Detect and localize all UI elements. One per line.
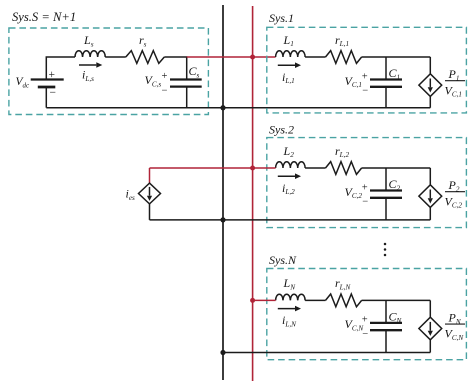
capacitor C2 plates	[370, 189, 402, 191]
subsystem box Sys.1 (dashed)	[267, 27, 467, 113]
inductor LN	[276, 294, 306, 300]
inductor L2	[276, 162, 306, 168]
svg-text:−: −	[362, 197, 368, 208]
svg-text:Sys.2: Sys.2	[269, 122, 294, 136]
wire inductor to resistor	[305, 299, 325, 301]
wire inductor to resistor	[305, 56, 325, 58]
capacitor Cs plates	[170, 78, 202, 80]
current arrow iLs	[79, 64, 96, 66]
node red bus junction (Sys.N feeder)	[250, 298, 255, 303]
dependent source P1 (diamond)	[419, 74, 442, 97]
wire resistor to dependent source	[362, 299, 431, 301]
dependent source PN (diamond)	[419, 317, 442, 340]
capacitor Cs top lead	[186, 57, 188, 80]
capacitor C1 bottom lead	[385, 87, 387, 108]
resistor rs	[126, 51, 165, 64]
dependent source P2 top lead	[429, 168, 431, 185]
wire Sys.2 bottom rail through black bus	[150, 219, 431, 221]
current source ies top lead (red)	[149, 168, 151, 183]
subsystem box Sys.2 (dashed)	[267, 138, 467, 228]
node red bus junction (top)	[250, 55, 255, 60]
capacitor C2 top lead	[385, 168, 387, 191]
resistor rL2	[326, 162, 362, 175]
node black bus junction (Sys.S / Sys.1 return)	[223, 107, 430, 109]
node black bus junction (Sys.2 return)	[220, 217, 225, 222]
dependent source P1 top lead	[429, 57, 431, 74]
resistor rLN	[326, 294, 362, 307]
dependent source P1 bottom lead	[429, 96, 431, 107]
capacitor CN bottom lead	[385, 330, 387, 352]
inductor L1	[276, 51, 306, 57]
wire ies source to Sys.2 input (red)	[150, 167, 276, 169]
svg-text:Sys.S = N+1: Sys.S = N+1	[12, 10, 76, 24]
wire Sys.S output to Sys.1 input (red)	[187, 56, 276, 58]
wire battery top lead to inductor	[46, 57, 75, 80]
capacitor C1 top lead	[385, 57, 387, 80]
svg-text:+: +	[362, 182, 368, 193]
current arrow iL2	[278, 175, 295, 177]
wire black bus to Sys.N bottom rail	[223, 352, 430, 354]
subsystem box Sys.N (dashed)	[267, 269, 467, 360]
wire resistor to dependent source	[362, 56, 431, 58]
current source ies bottom lead	[149, 204, 151, 220]
svg-text:+: +	[162, 71, 168, 82]
wire inductor to resistor	[305, 167, 325, 169]
resistor rL1	[326, 51, 362, 64]
node red bus junction (Sys.2 feeder)	[250, 166, 255, 171]
inductor Ls	[75, 51, 105, 57]
wire resistor to dependent source	[362, 167, 431, 169]
wire battery bottom lead	[45, 87, 47, 108]
svg-text:+: +	[362, 315, 368, 326]
wire red bus to Sys.N input (red)	[253, 299, 276, 301]
capacitor CN top lead	[385, 300, 387, 323]
svg-text:−: −	[162, 86, 168, 97]
svg-text:Sys.1: Sys.1	[269, 11, 294, 25]
subsystem box Sys.S (dashed)	[9, 28, 209, 115]
dependent source P2 bottom lead	[429, 207, 431, 220]
wire resistor to capacitor node	[164, 56, 187, 58]
wire Sys.S bottom rail to black bus	[46, 107, 223, 109]
source Vdc battery	[31, 78, 64, 80]
capacitor CN plates	[370, 322, 402, 324]
svg-text:−: −	[362, 86, 368, 97]
capacitor C2 bottom lead	[385, 198, 387, 220]
current arrow iL1	[278, 64, 295, 66]
node black bus junction (Sys.N return)	[220, 350, 225, 355]
svg-text:−: −	[50, 87, 57, 99]
svg-text:+: +	[362, 71, 368, 82]
capacitor Cs bottom lead	[186, 87, 188, 108]
wire inductor to resistor	[105, 56, 126, 58]
current source ies (diamond)	[139, 183, 161, 204]
svg-text:−: −	[362, 329, 368, 340]
wire: black DC bus (vertical)	[222, 5, 224, 380]
wire: red DC bus (vertical)	[252, 6, 254, 381]
capacitor C1 plates	[370, 78, 402, 80]
dependent source PN bottom lead	[429, 340, 431, 353]
svg-text:Sys.N: Sys.N	[269, 253, 297, 267]
dependent source PN top lead	[429, 300, 431, 317]
ellipsis (more subsystems)	[384, 243, 387, 246]
svg-text:+: +	[49, 69, 56, 81]
current arrow iLN	[278, 308, 295, 310]
dependent source P2 (diamond)	[419, 185, 442, 208]
